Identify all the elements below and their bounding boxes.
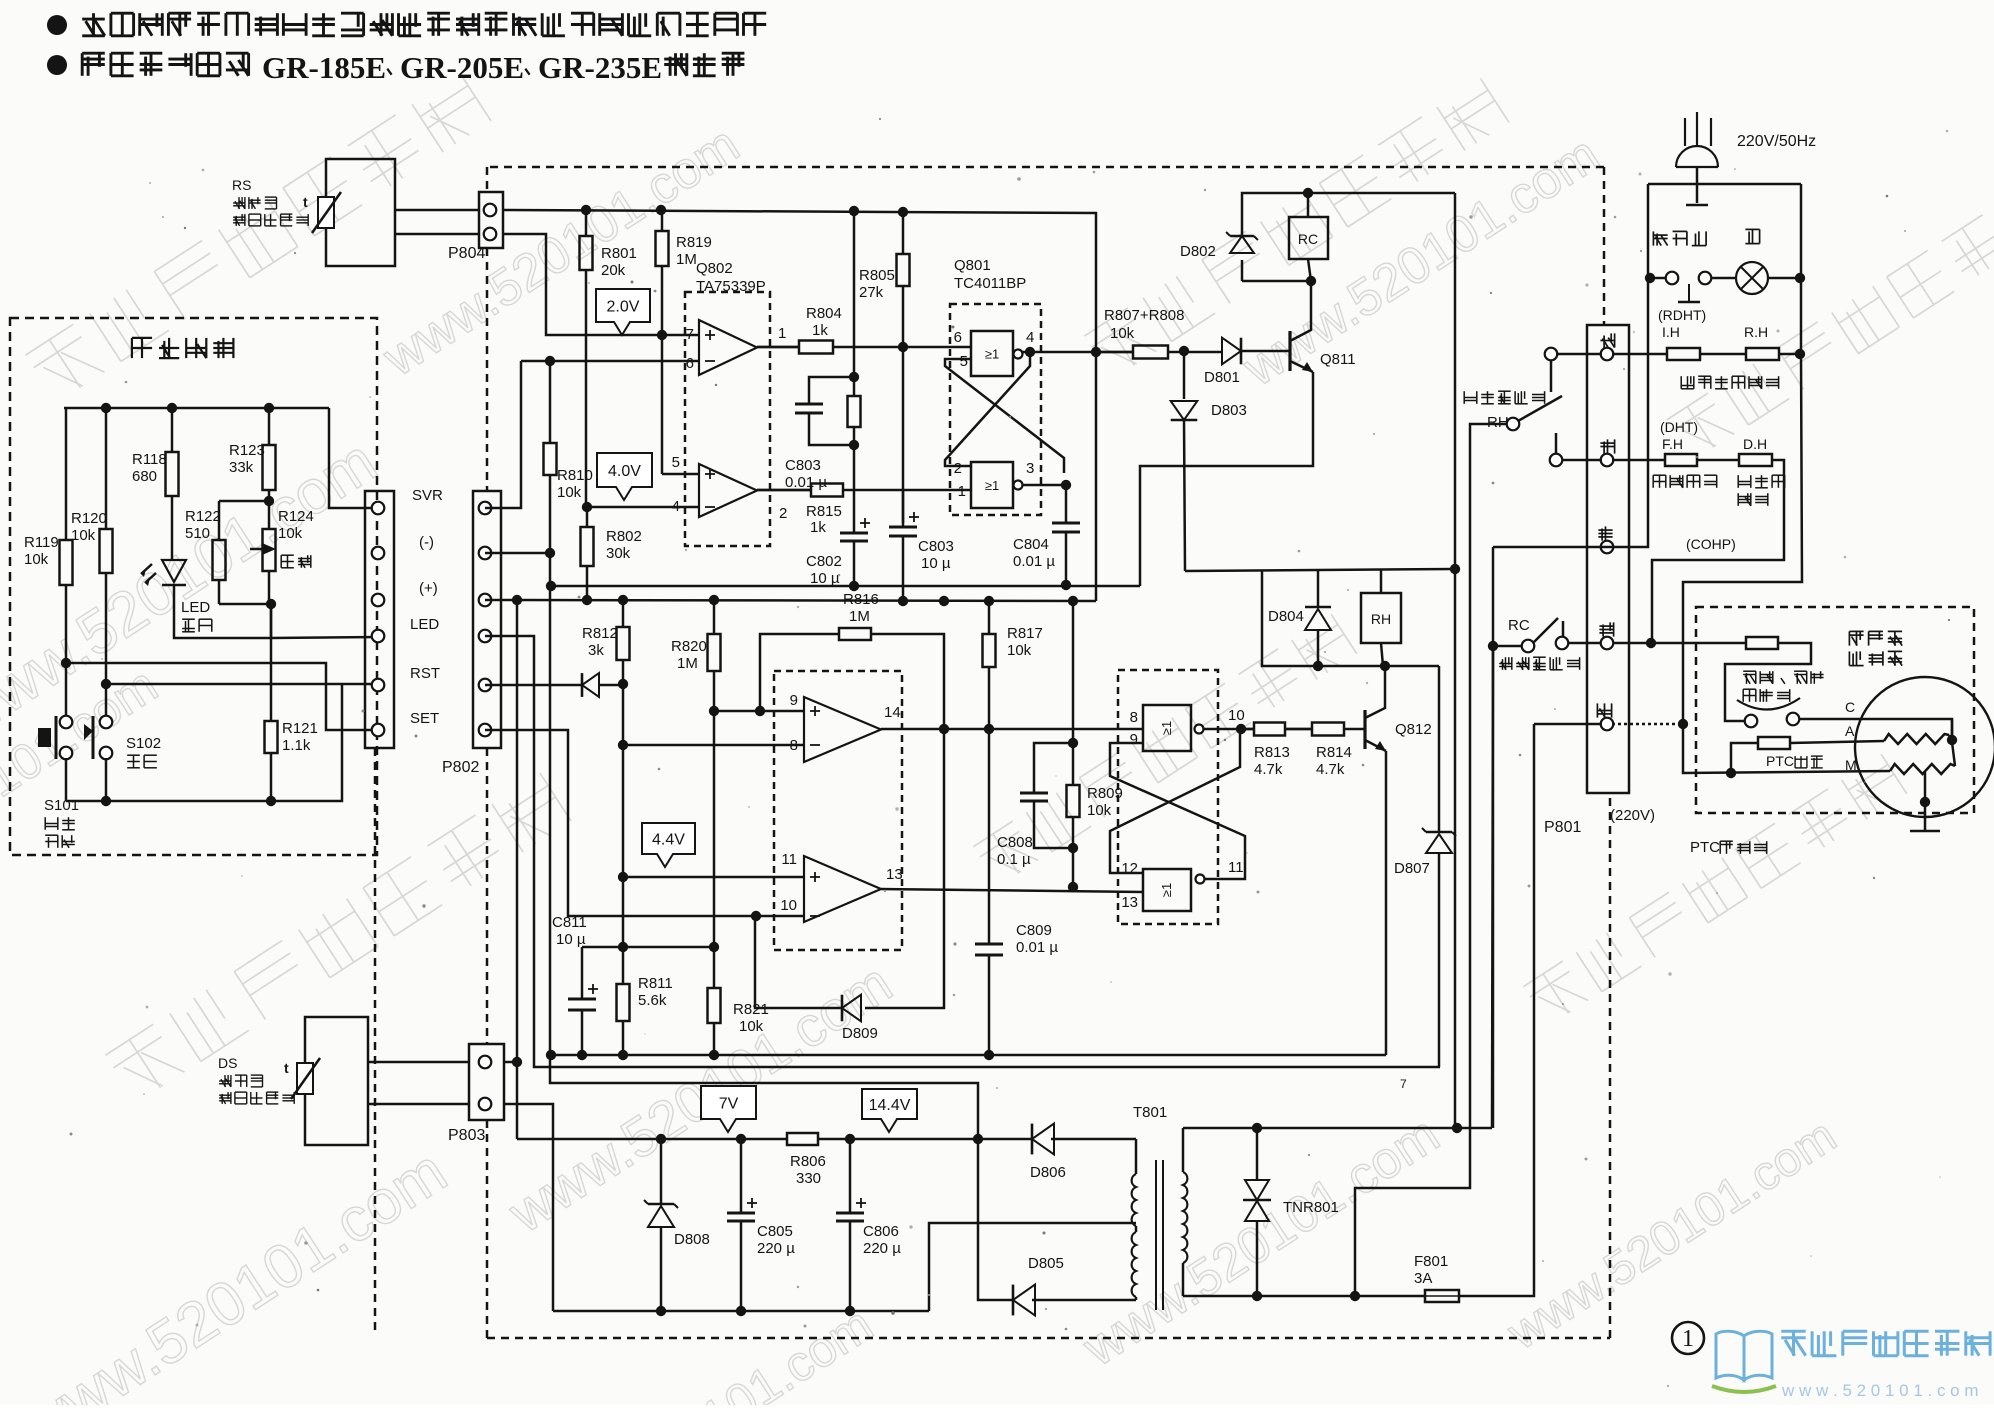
wire LED row to connector [271,637,378,638]
transistor Q812 [1363,710,1366,749]
wire D809 feedback [865,729,944,1008]
svg-text:D808: D808 [674,1231,710,1248]
wire (-) row [485,552,550,555]
svg-text:D.H: D.H [1743,436,1767,452]
motor winding main [1890,764,1955,774]
svg-text:13: 13 [1121,894,1138,911]
resistor heater R.H [1746,348,1779,360]
7V callout [701,1086,756,1132]
label 压缩机 电动机 [1849,631,1902,645]
wire LED net riser [485,636,1440,1067]
watermark [25,73,491,403]
diode D804 [1317,571,1320,606]
wire SET row in panel [66,663,378,730]
label 褐 [1598,526,1612,540]
resistor R809 [1072,601,1075,743]
svg-text:10 µ: 10 µ [556,931,586,948]
DS sensor box [305,1017,368,1145]
zener diode D807 [1438,666,1441,832]
wire D803 to defrost drive node [1184,420,1185,571]
logo text 家电维修资料网 [1781,1331,1990,1355]
svg-text:TA75339P: TA75339P [696,278,766,295]
op-amp U1b Q802 [699,464,757,517]
wire 7V rail [517,1138,787,1141]
transistor Q811 [1288,331,1291,371]
wire Q811 emitter return [1140,372,1313,586]
resistor R819 [661,210,664,231]
scan noise specks [654,290,657,293]
svg-text:D801: D801 [1204,369,1240,386]
wire ground bottom rail [553,1310,929,1313]
svg-text:8: 8 [1130,709,1138,726]
svg-text:R806: R806 [790,1153,826,1170]
svg-text:RC: RC [1508,617,1530,634]
svg-text:10 µ: 10 µ [810,570,840,587]
label 加热保险 [1653,475,1717,488]
svg-text:(RDHT): (RDHT) [1658,307,1706,323]
svg-text:R814: R814 [1316,744,1352,761]
svg-text:TC4011BP: TC4011BP [954,275,1026,292]
wire R120 to S102 [105,684,108,716]
resistor R123 [268,408,271,445]
label 调温 [281,555,311,568]
wire 14.4V rail [818,1138,1032,1141]
svg-text:13: 13 [886,866,903,883]
LED indicator [162,560,186,582]
wire blue row [1534,723,1602,726]
svg-text:10k: 10k [1087,802,1112,819]
wire purple row to PTC [1651,642,1746,645]
wire LED to node [174,585,271,638]
wire mid column [853,211,856,377]
svg-text:C: C [1845,699,1855,715]
svg-text:C803: C803 [918,538,954,555]
svg-text:RC: RC [1298,231,1318,247]
main control-board dashed outline [490,166,1604,169]
svg-text:30k: 30k [606,545,631,562]
svg-text:220 µ: 220 µ [757,1240,795,1257]
capacitor C803 0.01u [809,377,854,404]
svg-text:D806: D806 [1030,1164,1066,1181]
svg-text:4.7k: 4.7k [1254,761,1283,778]
svg-text:(+): (+) [419,580,438,597]
diode D801 [1222,338,1241,365]
svg-text:R811: R811 [638,975,673,992]
NOR gate U2c [1143,705,1191,751]
svg-text:C802: C802 [806,553,842,570]
svg-text:680: 680 [132,468,157,485]
svg-text:1: 1 [778,325,786,342]
svg-text:F801: F801 [1414,1253,1448,1270]
svg-text:10: 10 [780,897,797,914]
svg-text:10k: 10k [739,1018,764,1035]
svg-text:D809: D809 [842,1025,878,1042]
svg-text:A: A [1845,723,1855,739]
svg-text:R805: R805 [859,267,895,284]
wire panel top rail [64,407,329,410]
svg-text:C804: C804 [1013,536,1049,553]
svg-text:RH: RH [1487,414,1509,431]
wire op4 output row [881,889,1143,892]
wire op3 output row [881,728,1143,731]
PTC element [1758,737,1790,749]
wire RC riser to primary [1492,646,1493,1128]
wire D805 branch [978,1139,1013,1300]
wire R820 column to R821 [713,711,716,947]
svg-text:20k: 20k [601,262,626,279]
resistor heater F.H [1665,454,1697,466]
svg-text:C805: C805 [757,1223,793,1240]
svg-text:C811: C811 [552,914,587,931]
resistor heater I.H [1667,348,1700,360]
wire RH contact line [1355,424,1508,1296]
svg-text:R819: R819 [676,234,712,251]
connector P801 [1587,325,1629,793]
2.0V callout [596,289,650,335]
svg-text:R124: R124 [278,508,314,525]
wire primary top row [1183,1127,1492,1130]
svg-text:Q802: Q802 [696,260,733,277]
resistor R805 [902,212,905,254]
label 紫 [1599,622,1613,636]
wire RC to purple row [1568,642,1651,645]
4.4V callout [642,823,695,867]
svg-text:10k: 10k [1007,642,1032,659]
svg-text:R817: R817 [1007,625,1043,642]
svg-text:12: 12 [1121,860,1138,877]
motor winding start [1884,734,1949,744]
resistor R807+R808 [1096,351,1133,354]
svg-text:3: 3 [1026,460,1034,477]
wire op2 output row [757,489,811,492]
resistor R821 [713,947,716,988]
label 黄 [1600,439,1614,453]
thermistor RS [318,197,334,228]
capacitor C803 electrolytic 10u [902,490,905,527]
svg-text:1M: 1M [676,251,697,268]
svg-text:≥1: ≥1 [1159,721,1174,735]
relay contact RC [1493,645,1522,648]
wire panel bottom rail [66,685,342,801]
label 过热、过流 保护器 [1743,671,1823,684]
resistor R802 [586,507,589,527]
svg-text:PTC: PTC [1766,753,1794,769]
svg-text:220 µ: 220 µ [863,1240,901,1257]
svg-text:5: 5 [672,454,680,471]
svg-text:P803: P803 [448,1127,485,1144]
svg-text:(220V): (220V) [1610,807,1655,824]
svg-text:LED: LED [410,616,439,633]
svg-text:(COHP): (COHP) [1686,536,1736,552]
wire branch down to RH node row [1262,571,1439,666]
wire DS to P803 pin2 [368,1103,469,1106]
relay contact RH [1507,418,1520,431]
svg-text:S102: S102 [126,735,161,752]
svg-text:7: 7 [1400,1077,1407,1091]
wire defrost node row [1185,569,1455,571]
switch S101 defrost start [60,716,73,729]
svg-text:1.1k: 1.1k [282,737,311,754]
svg-text:GR-205E: GR-205E [400,50,524,85]
capacitor C804 0.01u [1052,522,1080,525]
svg-text:TNR801: TNR801 [1283,1199,1339,1216]
potentiometer R124 [268,501,271,529]
wire comparator ground rail [551,1054,1386,1057]
svg-text:R123: R123 [229,442,265,459]
label 除霜继电器 RH [1464,391,1544,404]
svg-text:0.01 µ: 0.01 µ [1013,553,1055,570]
svg-text:1k: 1k [810,519,826,536]
thermistor DS [297,1063,313,1094]
svg-text:R118: R118 [132,451,167,468]
wire pin11 row 4.4V [623,876,804,879]
diode D806 [1032,1124,1054,1155]
svg-text:4: 4 [672,498,680,515]
resistor R119 [65,408,68,540]
svg-text:510: 510 [185,525,210,542]
svg-text:R120: R120 [71,510,107,527]
Q802 dashed box [685,292,770,546]
svg-text:10k: 10k [1110,325,1135,342]
resistor R814 [1285,728,1312,731]
svg-text:GR-235E: GR-235E [538,50,662,85]
svg-text:C803: C803 [785,457,821,474]
svg-text:11: 11 [781,851,797,868]
wire transformer center tap [929,1223,1136,1311]
svg-text:1k: 1k [812,322,828,339]
svg-text:GR-185E: GR-185E [262,50,386,85]
diode D805 [1013,1285,1035,1316]
label 门开关 [1653,231,1706,245]
PTC starter dashed box [1696,607,1974,813]
wire D802 RC loop [1241,260,1244,281]
svg-text:R810: R810 [557,467,593,484]
wire (+) row riser to 7V rail [485,600,517,1139]
svg-text:R813: R813 [1254,744,1290,761]
resistor R820 [713,600,716,634]
wire S101 bottom [65,758,68,801]
svg-text:LED: LED [181,599,210,616]
14.4V callout [862,1089,917,1132]
resistor R804 [757,346,799,349]
svg-text:SVR: SVR [412,487,443,504]
wire gate C output [1204,728,1254,731]
wire gate B output 3 [1022,485,1066,523]
page number circle 1 [1672,1322,1704,1354]
svg-text:5.6k: 5.6k [638,992,667,1009]
svg-text:0.1 µ: 0.1 µ [997,851,1031,868]
overload protector contacts [1737,698,1800,710]
wire 220V plug [1684,118,1686,146]
svg-text:R801: R801 [601,245,637,262]
label 除霜加热器 [1738,475,1785,488]
svg-text:R121: R121 [282,720,318,737]
svg-text:(DHT): (DHT) [1660,419,1698,435]
wire primary bottom rail [1183,1295,1425,1298]
svg-text:≥1: ≥1 [1159,883,1174,897]
svg-text:D802: D802 [1180,243,1216,260]
NOR gate U2b [971,462,1013,508]
svg-text:T801: T801 [1133,1104,1167,1121]
resistor R801 [585,210,588,236]
svg-text:6: 6 [954,329,962,346]
svg-text:RST: RST [410,665,440,682]
svg-text:10k: 10k [278,525,303,542]
capacitor C808 0.1u [1034,743,1073,793]
resistor R812 [622,600,625,627]
relay coil RH box [1380,569,1383,593]
Q801 dashed box [950,304,1041,515]
wire right rail from RC loop [1454,193,1457,569]
svg-text:8: 8 [790,737,798,754]
svg-text:F.H: F.H [1662,436,1683,452]
svg-text:2.0V: 2.0V [607,299,640,316]
wire RS to P804 pin1 [395,209,479,212]
wire D.H return to purple [1652,460,1784,643]
overload protector resistor [1746,637,1778,649]
wire P804 pin1 supply rail [503,210,1096,601]
wire M row [1683,724,1890,773]
resistor R120 [105,408,108,529]
svg-text:R802: R802 [606,528,642,545]
switch S102 stop [100,716,113,729]
svg-text:≥1: ≥1 [985,347,999,362]
label 红 [1600,333,1614,347]
lamp [1736,262,1768,294]
connector P803 [469,1044,504,1120]
svg-text:RS: RS [232,177,251,193]
wire protector to C terminal [1799,719,1952,740]
svg-text:10 µ: 10 µ [921,555,951,572]
svg-text:4: 4 [1026,329,1034,346]
svg-text:4.4V: 4.4V [652,832,685,849]
svg-text:D803: D803 [1211,402,1247,419]
wire bias rail B [517,600,1096,601]
svg-text:RH: RH [1371,611,1391,627]
compressor motor circle [1855,677,1994,817]
wire right rail down [1683,354,1802,724]
motor common link [1949,719,1952,742]
wire P803 pin1 to (+) net [504,1061,517,1064]
wire op1 output row [757,346,799,349]
resistor parallel with C803 [853,377,856,396]
relay coil RC box [1289,217,1328,259]
svg-text:1: 1 [1682,1326,1694,1352]
label 蓝 [1597,703,1611,717]
wire gate A output 4 row [1022,351,1133,354]
svg-text:S101: S101 [44,797,79,814]
svg-text:Q812: Q812 [1395,721,1432,738]
svg-text:R821: R821 [733,1001,769,1018]
connector P804 [479,192,503,248]
svg-text:0.01 µ: 0.01 µ [1016,939,1058,956]
svg-text:4.0V: 4.0V [608,463,641,480]
wire RS to P804 pin2 [395,233,479,236]
svg-text:C808: C808 [997,834,1033,851]
resistor R810 [549,361,552,443]
wire S102 bottom [105,758,108,801]
label 灯 [1745,229,1759,243]
svg-text:(-): (-) [419,534,434,551]
zener diode D808 [660,1139,663,1204]
svg-text:14: 14 [884,704,901,721]
wire SET riser to pin10 row [485,730,804,916]
svg-text:PTC: PTC [1690,839,1720,856]
svg-text:R807+R808: R807+R808 [1104,307,1184,324]
op-amp U1c [804,697,881,762]
svg-text:9: 9 [790,692,798,709]
svg-text:R820: R820 [671,638,707,655]
wire yellow row [1562,459,1602,462]
connector P802 [365,491,394,748]
wire R812 column [622,684,625,947]
svg-text:11: 11 [1228,859,1244,876]
resistor R806 [787,1133,818,1145]
svg-text:R122: R122 [185,508,221,525]
svg-text:4.7k: 4.7k [1316,761,1345,778]
svg-text:27k: 27k [859,284,884,301]
svg-text:10: 10 [1228,707,1245,724]
capacitor C802 electrolytic 10u [853,445,856,533]
svg-text:10k: 10k [24,551,49,568]
svg-text:C806: C806 [863,1223,899,1240]
wire C811 row link [623,946,714,949]
svg-text:≥1: ≥1 [985,478,999,493]
wire red row [1556,353,1602,356]
wire op3 pin8 row [623,744,804,747]
resistor R813 [1241,728,1254,731]
svg-text:R812: R812 [582,625,618,642]
svg-text:7V: 7V [719,1096,739,1113]
label 防结霜加热器 [1681,376,1778,389]
wire P803 pin2 to ground rail [504,1104,553,1311]
svg-text:2: 2 [779,505,787,522]
Q801 second dashed box [1118,670,1218,924]
capacitor C806 electrolytic 220u [849,1139,852,1213]
svg-text:1M: 1M [677,655,698,672]
wire supply drop to 14.4V feed [550,586,978,1139]
wire pin4 row [587,506,700,509]
wire pin6 row [521,360,699,363]
svg-text:w w w . 5 2 0 1 0 1 . c o m: w w w . 5 2 0 1 0 1 . c o m [1781,1381,1979,1400]
svg-text:2: 2 [954,460,962,477]
wire lamp circuit box [1648,183,1801,186]
svg-text:DS: DS [218,1055,237,1071]
resistor R118 [171,408,174,452]
svg-text:D805: D805 [1028,1255,1064,1272]
capacitor C811 electrolytic [582,946,623,949]
diode to RST row [485,684,582,687]
svg-text:6: 6 [686,355,694,372]
svg-text:P802: P802 [442,759,479,776]
resistor R122 [219,500,269,503]
wire brown row [1493,546,1612,549]
resistor R815 [757,489,811,492]
title line 2 [47,55,67,75]
diode D803 [1171,401,1198,420]
resistor R811 [622,947,625,984]
operation panel dashed box [10,318,377,855]
NOR gate U2a [971,331,1013,376]
svg-text:Q811: Q811 [1320,351,1356,368]
svg-text:t: t [284,1060,289,1076]
label 操作面板 [132,338,234,358]
svg-text:R804: R804 [806,305,842,322]
NOR gate U2d [1143,869,1191,911]
wire SVR to panel rail [329,408,378,508]
resistor heater D.H [1739,454,1772,466]
svg-text:C809: C809 [1016,922,1052,939]
